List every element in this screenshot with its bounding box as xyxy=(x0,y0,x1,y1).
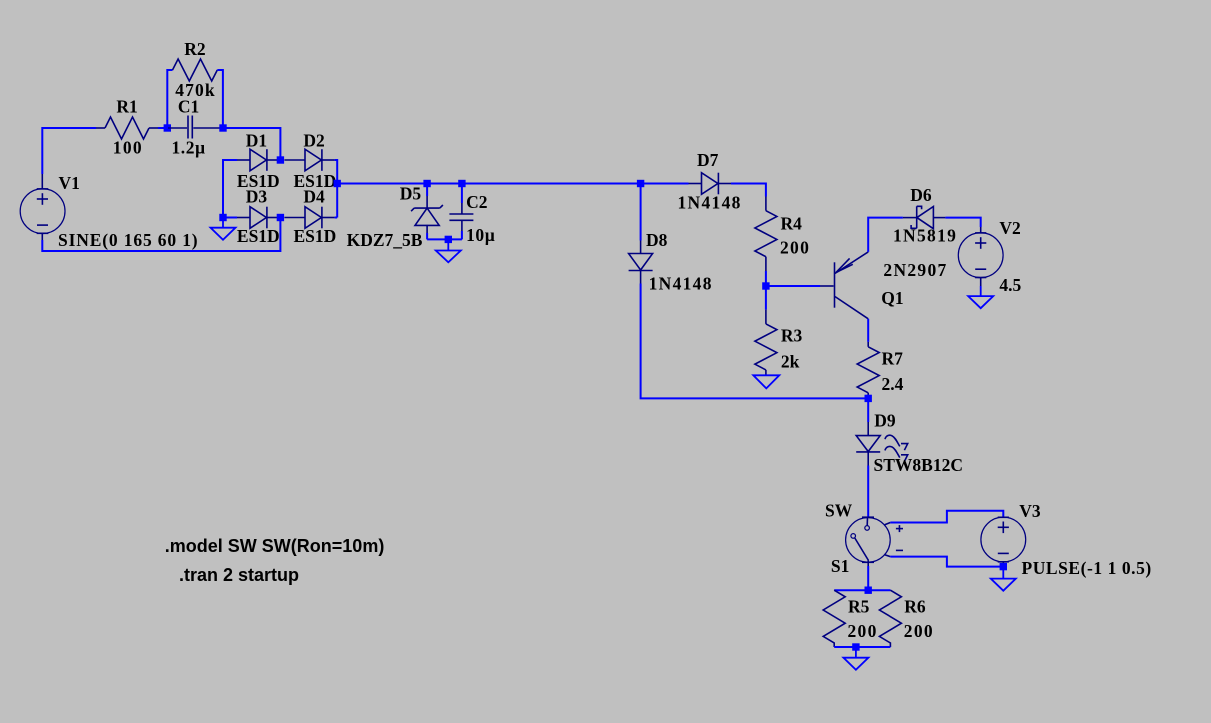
svg-text:SW: SW xyxy=(825,501,853,521)
svg-text:S1: S1 xyxy=(831,556,849,576)
value 1N5819 xyxy=(893,226,957,246)
label D9 xyxy=(874,410,896,430)
capacitor C1 xyxy=(168,116,222,139)
schottky diode D6 xyxy=(903,206,946,228)
svg-text:ES1D: ES1D xyxy=(237,226,280,246)
svg-text:R2: R2 xyxy=(184,39,205,59)
svg-text:D3: D3 xyxy=(246,186,268,206)
svg-text:SINE(0 165 60 1): SINE(0 165 60 1) xyxy=(58,230,198,250)
resistor R3 xyxy=(755,286,777,375)
svg-text:D4: D4 xyxy=(303,186,325,206)
label D8 xyxy=(646,230,668,250)
resistor R5 xyxy=(823,590,845,647)
value 200 of R6 xyxy=(904,621,934,641)
value 2N2907 xyxy=(883,260,947,280)
wire D5 C2 bottom xyxy=(427,238,462,240)
svg-text:D6: D6 xyxy=(910,185,932,205)
svg-text:4.5: 4.5 xyxy=(999,275,1021,295)
svg-text:C1: C1 xyxy=(178,96,199,116)
label D5 xyxy=(400,184,422,204)
label C2 xyxy=(466,192,487,212)
wire switch minus to V3 xyxy=(890,557,1003,567)
svg-text:D9: D9 xyxy=(874,410,896,430)
ground D5 C2 xyxy=(436,239,461,262)
ground R5 R6 xyxy=(843,647,868,670)
wire J4 to D3 xyxy=(223,217,237,219)
diode D3 xyxy=(237,207,280,229)
label R3 xyxy=(781,325,803,345)
value PULSE xyxy=(1022,558,1152,578)
svg-text:1N4148: 1N4148 xyxy=(649,274,713,294)
capacitor C2 xyxy=(449,184,473,240)
svg-text:200: 200 xyxy=(780,238,810,258)
svg-text:1N4148: 1N4148 xyxy=(678,193,742,213)
wire D8 to R7 node xyxy=(641,284,869,399)
node J6 bridge output xyxy=(334,180,341,187)
node J3 xyxy=(277,156,284,163)
svg-text:D2: D2 xyxy=(303,131,324,151)
value 10u xyxy=(466,225,495,245)
label R4 xyxy=(781,213,803,233)
node J14 xyxy=(865,587,872,594)
resistor R4 xyxy=(755,197,777,287)
value 100 xyxy=(113,138,143,158)
node J10 xyxy=(637,180,644,187)
directive .model xyxy=(165,536,385,556)
diode D9 xyxy=(856,422,908,466)
svg-text:100: 100 xyxy=(113,138,143,158)
value ES1D of D1 xyxy=(237,171,280,191)
svg-text:2.4: 2.4 xyxy=(882,374,904,394)
wire D8 branch xyxy=(640,184,642,241)
label SW xyxy=(825,501,853,521)
ground V2 xyxy=(968,286,993,308)
svg-text:V1: V1 xyxy=(59,173,80,193)
value 1N4148 of D7 xyxy=(678,193,742,213)
wire D6 to V2 xyxy=(945,218,980,227)
svg-text:.tran 2 startup: .tran 2 startup xyxy=(179,565,299,585)
voltage source V3 xyxy=(981,517,1026,567)
svg-text:10µ: 10µ xyxy=(466,225,495,245)
wire D9 to switch xyxy=(867,466,869,518)
diode D1 xyxy=(237,149,280,171)
wire R5 R6 bottom rail xyxy=(834,646,890,648)
svg-text:D1: D1 xyxy=(246,131,267,151)
wire R2 right leg xyxy=(217,70,223,128)
node J2 xyxy=(219,124,226,131)
value KDZ7_5B xyxy=(347,230,423,250)
node J11 xyxy=(762,282,769,289)
wire base xyxy=(766,285,820,287)
svg-text:1.2µ: 1.2µ xyxy=(172,138,206,158)
wire V1 top to R1 xyxy=(42,128,96,174)
value 2k xyxy=(781,351,800,371)
wire R5 R6 top rail xyxy=(834,589,890,591)
svg-text:D7: D7 xyxy=(697,150,719,170)
svg-text:STW8B12C: STW8B12C xyxy=(874,455,963,475)
label V1 xyxy=(59,173,80,193)
zener diode D5 xyxy=(411,184,443,240)
svg-text:.model SW SW(Ron=10m): .model SW SW(Ron=10m) xyxy=(165,536,385,556)
wire D2 out down xyxy=(335,160,338,218)
transistor Q1 xyxy=(820,252,868,319)
resistor R2 xyxy=(173,59,218,81)
value 470k xyxy=(175,80,215,100)
wire collector to R7 xyxy=(867,319,869,342)
value 200 of R4 xyxy=(780,238,810,258)
value 1.2u xyxy=(172,138,206,158)
svg-text:2N2907: 2N2907 xyxy=(883,260,947,280)
label Q1 xyxy=(881,288,903,308)
wire D4 out up xyxy=(335,217,338,219)
svg-text:R4: R4 xyxy=(781,213,803,233)
label R2 xyxy=(184,39,205,59)
label D2 xyxy=(303,131,324,151)
svg-text:R7: R7 xyxy=(882,348,904,368)
svg-text:V3: V3 xyxy=(1019,501,1041,521)
svg-text:200: 200 xyxy=(848,621,878,641)
svg-text:C2: C2 xyxy=(466,192,487,212)
label V3 xyxy=(1019,501,1041,521)
svg-text:R1: R1 xyxy=(116,96,137,116)
label R5 xyxy=(848,597,870,617)
node J9 xyxy=(445,236,452,243)
wire bridge left input xyxy=(223,160,237,218)
value ES1D of D2 xyxy=(294,171,337,191)
value 200 of R5 xyxy=(848,621,878,641)
label R6 xyxy=(904,597,926,617)
node J1 xyxy=(164,124,171,131)
label D6 xyxy=(910,185,932,205)
label R1 xyxy=(116,96,137,116)
wire switch plus to V3 xyxy=(890,511,1003,523)
value 2.4 xyxy=(882,374,904,394)
label R7 xyxy=(882,348,904,368)
wire R1 to node xyxy=(158,127,167,129)
node J4 xyxy=(219,214,226,221)
label V2 xyxy=(999,218,1020,238)
resistor R1 xyxy=(96,117,158,139)
value ES1D of D4 xyxy=(294,226,337,246)
svg-text:1N5819: 1N5819 xyxy=(893,226,957,246)
diode D8 xyxy=(629,241,653,284)
svg-text:R3: R3 xyxy=(781,325,803,345)
svg-text:KDZ7_5B: KDZ7_5B xyxy=(347,230,423,250)
svg-text:D8: D8 xyxy=(646,230,668,250)
ground R3 xyxy=(753,375,779,388)
value 4.5 xyxy=(999,275,1021,295)
voltage source V1 xyxy=(20,174,65,240)
resistor R6 xyxy=(879,590,901,647)
value SINE xyxy=(58,230,198,250)
svg-text:R5: R5 xyxy=(848,597,870,617)
svg-text:200: 200 xyxy=(904,621,934,641)
label C1 xyxy=(178,96,199,116)
label D3 xyxy=(246,186,268,206)
value STW8B12C xyxy=(874,455,963,475)
diode D4 xyxy=(284,207,334,229)
resistor R7 xyxy=(857,342,879,399)
node J12 xyxy=(865,395,872,402)
ground bridge xyxy=(211,218,236,240)
svg-text:2k: 2k xyxy=(781,351,800,371)
wire to D9 xyxy=(867,398,869,422)
wire C1 node to bridge xyxy=(223,128,280,160)
wire V1 bottom rail xyxy=(42,218,280,252)
voltage source V2 xyxy=(958,227,1003,286)
label S1 xyxy=(831,556,849,576)
value 1N4148 of D8 xyxy=(649,274,713,294)
directive .tran xyxy=(179,565,299,585)
label D4 xyxy=(303,186,325,206)
label D1 xyxy=(246,131,267,151)
svg-text:PULSE(-1 1 0.5): PULSE(-1 1 0.5) xyxy=(1022,558,1152,578)
wire D7 to R4 xyxy=(731,184,766,197)
wire R2 left leg xyxy=(167,70,172,128)
svg-text:R6: R6 xyxy=(904,597,926,617)
svg-text:ES1D: ES1D xyxy=(294,226,337,246)
wire main bus xyxy=(337,183,688,185)
svg-text:V2: V2 xyxy=(999,218,1020,238)
svg-text:D5: D5 xyxy=(400,184,422,204)
node J7 xyxy=(423,180,430,187)
diode D7 xyxy=(689,173,732,195)
svg-text:Q1: Q1 xyxy=(881,288,903,308)
node J5 xyxy=(277,214,284,221)
label D7 xyxy=(697,150,719,170)
wire switch to R5 R6 xyxy=(867,566,869,590)
node J8 xyxy=(458,180,465,187)
value ES1D of D3 xyxy=(237,226,280,246)
switch S1 xyxy=(846,517,903,566)
node J15 xyxy=(852,643,859,650)
diode D2 xyxy=(284,149,334,171)
wire emitter to D6 xyxy=(868,218,903,252)
node J13 xyxy=(1000,563,1007,570)
ground V3 xyxy=(991,567,1016,591)
